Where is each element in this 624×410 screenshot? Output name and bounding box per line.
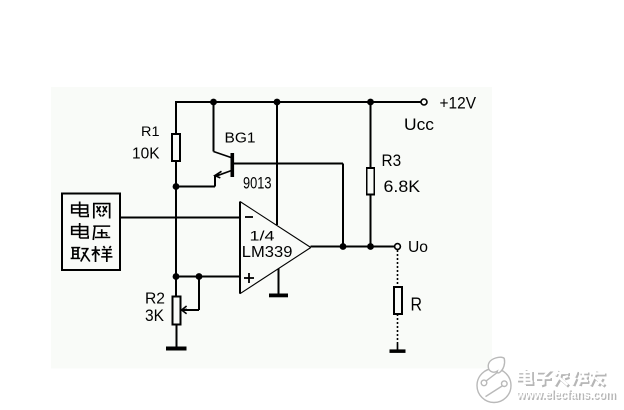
pin plus marker xyxy=(244,273,254,283)
wire ground stub of load R xyxy=(397,344,399,350)
wire R2 bottom lead xyxy=(176,325,178,347)
box label hanzi WANG (row1) xyxy=(94,204,110,219)
svg-text:9013: 9013 xyxy=(243,175,272,193)
svg-text:R: R xyxy=(411,295,423,315)
junction R3 bottom at output line xyxy=(367,243,374,250)
wire dashed lead R to ground xyxy=(397,314,399,344)
svg-text:3K: 3K xyxy=(145,306,165,325)
wire comparator ground stub xyxy=(278,269,280,295)
box label hanzi DIAN (row1) xyxy=(72,202,88,217)
watermark text white layer xyxy=(516,369,616,402)
wire BG1 emitter horizontal xyxy=(176,186,215,188)
schematic panel background xyxy=(51,87,492,369)
sampling box (grid voltage sampling) xyxy=(62,194,120,271)
ground (load R) xyxy=(390,349,406,353)
terminal Uo xyxy=(395,244,401,250)
svg-text:+12V: +12V xyxy=(440,94,477,113)
resistor R1 xyxy=(172,134,180,161)
potentiometer R2 body xyxy=(173,297,181,325)
svg-text:R3: R3 xyxy=(382,151,402,170)
ground (R2) xyxy=(166,347,187,351)
box label hanzi QU (row3) xyxy=(71,248,90,262)
ground (comparator) xyxy=(269,294,288,298)
potentiometer R2 wiper arrow xyxy=(182,306,187,314)
terminal +12V xyxy=(421,99,427,105)
wire R1 bottom lead down to R2 xyxy=(175,161,177,297)
wire base-to-output vertical xyxy=(342,164,344,247)
wire to non-inverting input xyxy=(176,276,240,278)
svg-text:R2: R2 xyxy=(145,290,165,307)
transistor BG1 xyxy=(214,152,235,178)
wire R2 wiper horizontal xyxy=(183,309,199,311)
wire box to inverting input xyxy=(120,217,240,219)
svg-text:10K: 10K xyxy=(132,145,160,162)
svg-text:BG1: BG1 xyxy=(225,129,256,146)
junction comparator supply at +12V rail xyxy=(274,99,281,106)
junction base feedback at output line xyxy=(340,243,347,250)
wire BG1 emitter vertical stub xyxy=(214,176,216,187)
op-amp U1 comparator triangle xyxy=(240,202,311,294)
box label hanzi YANG (row3) xyxy=(92,246,113,262)
wire comparator power line xyxy=(276,102,278,225)
wire top +12V rail xyxy=(175,101,420,103)
svg-text:1/4: 1/4 xyxy=(250,228,276,243)
svg-text:R1: R1 xyxy=(141,123,160,139)
wire R3 top lead xyxy=(370,102,372,168)
wire comparator output xyxy=(311,246,395,248)
junction R2 wiper tap xyxy=(196,273,203,280)
svg-text:6.8K: 6.8K xyxy=(384,177,421,196)
svg-text:Uo: Uo xyxy=(408,239,428,256)
wire BG1 collector vertical xyxy=(213,102,215,152)
box label hanzi YA (row2) xyxy=(93,226,110,240)
svg-text:LM339: LM339 xyxy=(242,244,293,261)
box label hanzi DIAN (row2) xyxy=(72,223,88,238)
junction BG1 collector at +12V rail xyxy=(210,99,217,106)
svg-text:Ucc: Ucc xyxy=(404,115,435,134)
wire dashed lead Uo to R xyxy=(397,250,399,287)
resistor R3 xyxy=(367,168,375,195)
junction R3 top at +12V rail xyxy=(367,99,374,106)
wire BG1 base horizontal xyxy=(234,163,343,165)
resistor R (load) xyxy=(394,287,402,314)
decorative watermark logo xyxy=(477,357,511,402)
junction divider node to non-inverting input xyxy=(173,273,180,280)
watermark text shadow layer xyxy=(517,370,617,403)
wire left column (R1 top lead) xyxy=(175,101,177,134)
pin minus marker xyxy=(245,216,253,218)
wire R3 bottom lead xyxy=(370,195,372,247)
junction BG1 emitter at R1/R2 divider xyxy=(173,183,180,190)
wire R2 wiper vertical xyxy=(198,277,200,311)
